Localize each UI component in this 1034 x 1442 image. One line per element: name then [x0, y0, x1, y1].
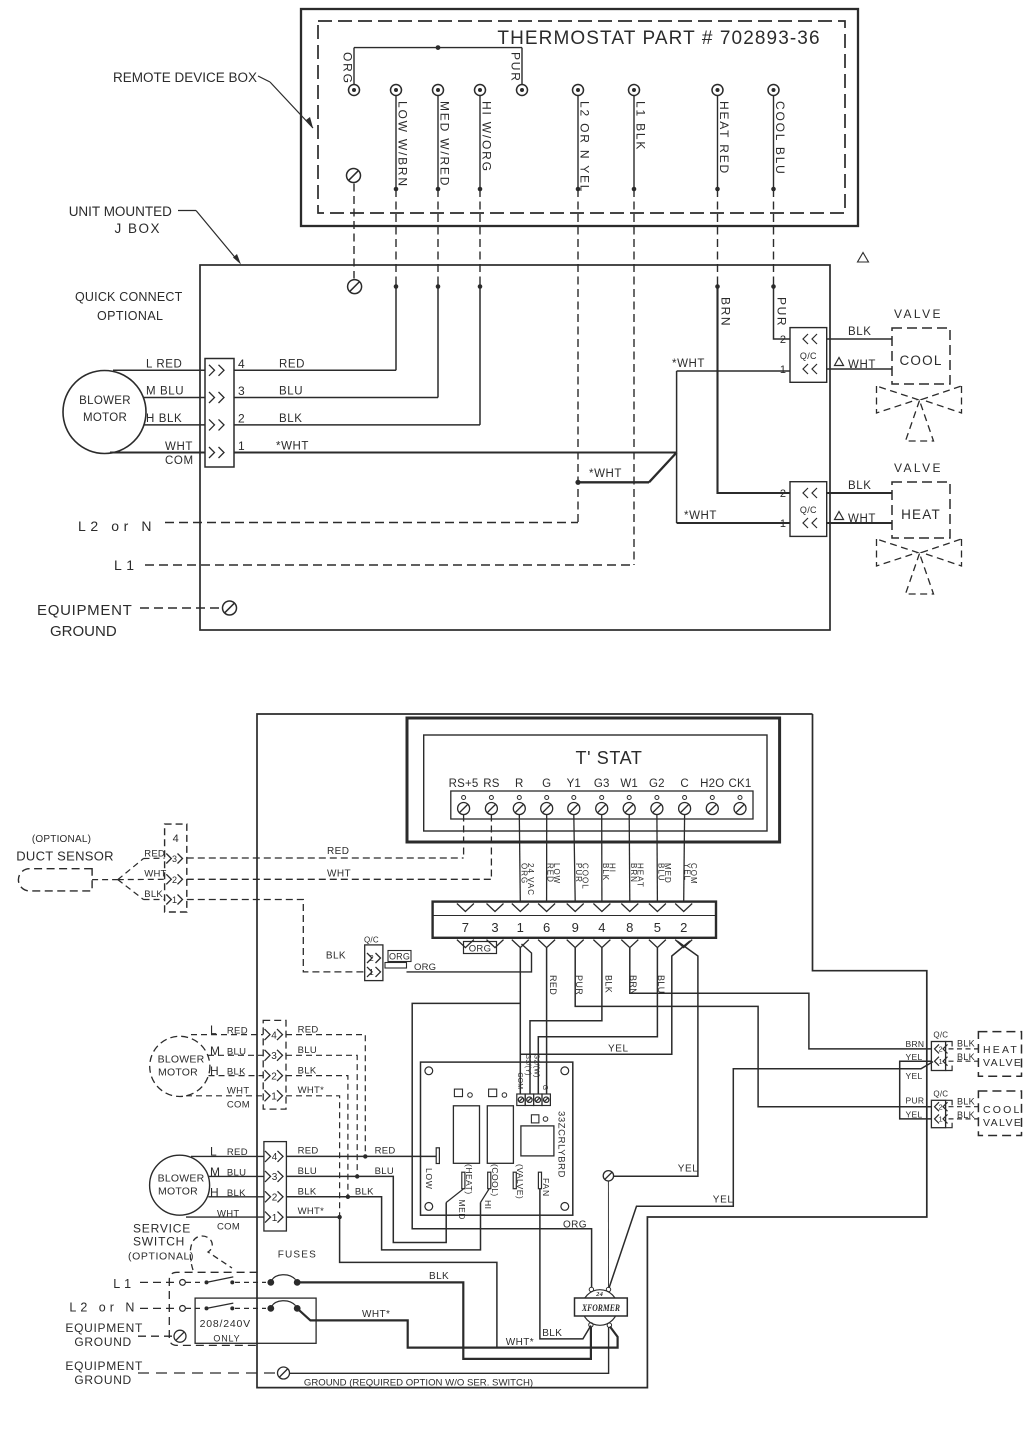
strip pin 5 top chevron — [649, 904, 666, 912]
junction dot LOW W/BRN — [394, 187, 399, 192]
svg-text:4: 4 — [272, 1152, 278, 1163]
label triangle WHT cool — [835, 358, 844, 366]
svg-text:COOL: COOL — [983, 1104, 1022, 1116]
svg-text:RED: RED — [227, 1025, 248, 1036]
svg-text:WHT*: WHT* — [506, 1337, 534, 1348]
svg-text:COM: COM — [516, 1072, 523, 1089]
optional QC pin 4 — [265, 1029, 271, 1040]
svg-text:3: 3 — [238, 384, 245, 398]
main QC pin 1 — [265, 1212, 271, 1223]
svg-text:1: 1 — [780, 518, 786, 530]
svg-text:Q/C: Q/C — [933, 1090, 948, 1099]
svg-text:L2 or N: L2 or N — [78, 518, 156, 534]
T'STAT box outer — [407, 718, 780, 842]
wire YEL heat QC pin1 to transformer — [609, 1062, 933, 1288]
svg-text:HI W/ORG: HI W/ORG — [480, 101, 494, 173]
svg-text:GROUND (REQUIRED OPTION W/O SE: GROUND (REQUIRED OPTION W/O SER. SWITCH) — [304, 1378, 533, 1389]
svg-text:BLU: BLU — [298, 1166, 317, 1177]
svg-text:BLK: BLK — [957, 1110, 975, 1120]
svg-text:BLU: BLU — [375, 1166, 394, 1177]
strip pin 2 top chevron — [675, 904, 692, 912]
strip pin 1 top chevron — [512, 904, 529, 912]
svg-text:Q/C: Q/C — [933, 1031, 948, 1040]
svg-text:EQUIPMENT: EQUIPMENT — [65, 1359, 143, 1373]
dashed wire COOL BLU to J box — [773, 189, 775, 287]
relay board LED square 2 — [489, 1089, 497, 1097]
T'STAT terminal G3 — [600, 796, 604, 800]
quick-connect block QC1 — [205, 359, 234, 468]
strip pin 6 top chevron — [538, 904, 555, 912]
unit mounted J box outline — [200, 265, 830, 630]
thermostat terminal COOL BLU — [768, 85, 779, 96]
junction dot BLU jumper — [355, 1174, 359, 1178]
wire BLK to cool valve — [827, 338, 892, 340]
svg-text:2: 2 — [939, 1103, 943, 1112]
svg-text:BLK: BLK — [848, 326, 872, 338]
L1 switch pole — [180, 1280, 186, 1286]
wire ground to transformer — [290, 1328, 609, 1374]
board terminal G2/(W) — [534, 1094, 542, 1106]
strip pin 6 bottom chevron — [538, 940, 555, 948]
junction dot PUR in J box — [771, 284, 776, 289]
wire YEL A from strip pin2 to COM wire — [520, 941, 690, 1054]
thermostat terminal L1 BLK — [629, 85, 640, 96]
svg-text:RED: RED — [298, 1025, 319, 1036]
svg-text:BLU: BLU — [227, 1046, 246, 1057]
svg-text:G3: G3 — [594, 778, 610, 790]
svg-text:*WHT: *WHT — [684, 510, 717, 522]
wire HI to QC pin2 — [479, 287, 481, 425]
svg-text:WHT*: WHT* — [298, 1085, 325, 1096]
svg-text:ORG: ORG — [519, 863, 528, 884]
strip pin 3 bottom chevron — [487, 940, 504, 948]
svg-text:YEL: YEL — [906, 1052, 923, 1062]
T'STAT terminal C — [683, 796, 687, 800]
wire RED from strip pin6 to board G — [546, 948, 548, 1094]
thermostat ground screw — [347, 169, 361, 183]
svg-text:FUSES: FUSES — [278, 1250, 317, 1261]
svg-text:L1 BLK: L1 BLK — [634, 101, 648, 151]
duct sensor QC pin 1 — [166, 895, 171, 905]
dashed jumper BLU optional — [286, 1055, 357, 1176]
svg-text:BLK: BLK — [601, 863, 610, 881]
board blade (COOL) — [488, 1172, 491, 1189]
relay board 33ZCRLYBRD outline — [421, 1062, 573, 1215]
svg-text:THERMOSTAT PART # 702893-36: THERMOSTAT PART # 702893-36 — [497, 28, 820, 49]
wire ORG branch from COM to transformer — [412, 1003, 591, 1287]
svg-text:BLK: BLK — [957, 1052, 975, 1062]
remote device box (thermostat enclosure) outer — [301, 9, 858, 226]
svg-text:VALVE: VALVE — [894, 461, 943, 475]
connector strip block — [433, 902, 716, 938]
dashed ground wire to J box screw — [353, 184, 355, 279]
main motor leads — [191, 1155, 264, 1157]
heat valve symbol — [877, 539, 918, 566]
wire BRN to heat QC pin2 — [718, 287, 791, 494]
wire C to strip pin 2 — [683, 815, 686, 903]
svg-text:1: 1 — [939, 1115, 943, 1124]
svg-text:RED: RED — [375, 1146, 396, 1157]
dashed wire L2 to fuse — [235, 1307, 266, 1309]
wire from terminal LOW W/BRN down — [395, 96, 397, 190]
svg-text:*WHT: *WHT — [672, 358, 705, 370]
svg-text:VALVE: VALVE — [983, 1057, 1022, 1069]
dashed wire L1 to fuse — [235, 1281, 266, 1283]
transformer pin bottom-left — [589, 1323, 593, 1327]
svg-text:VALVE: VALVE — [894, 307, 943, 321]
svg-text:*WHT: *WHT — [276, 441, 309, 453]
svg-text:WHT: WHT — [144, 869, 166, 880]
T'STAT terminal G2 — [655, 796, 659, 800]
junction dot LOW in J box — [394, 284, 399, 289]
svg-text:L2 OR N YEL: L2 OR N YEL — [578, 101, 592, 193]
wire BRN from strip pin8 to heat QC — [630, 948, 932, 1049]
svg-text:2: 2 — [272, 1193, 278, 1204]
svg-text:G: G — [542, 778, 551, 790]
svg-text:L1: L1 — [114, 557, 139, 573]
wire BLK from fuse F1 to transformer — [297, 1282, 591, 1359]
wire WHT to heat valve — [827, 522, 892, 524]
J box ground screw — [348, 280, 362, 294]
svg-text:RS: RS — [483, 778, 500, 790]
svg-text:HEAT: HEAT — [901, 507, 941, 522]
junction dot BRN in J box — [715, 284, 720, 289]
svg-text:(OPTIONAL): (OPTIONAL) — [128, 1251, 194, 1263]
svg-text:BRN: BRN — [906, 1039, 925, 1049]
svg-text:L1: L1 — [113, 1277, 135, 1291]
svg-text:9: 9 — [572, 920, 579, 935]
cool valve box — [892, 328, 950, 384]
svg-text:C: C — [680, 778, 689, 790]
svg-text:RED: RED — [144, 849, 165, 860]
dashed wire L2 or N — [165, 522, 578, 524]
strip pin 8 top chevron — [621, 904, 638, 912]
leader line to J box — [178, 210, 196, 212]
svg-text:BLK: BLK — [604, 975, 614, 993]
wire from terminal MED W/RED down — [437, 96, 439, 190]
svg-text:1: 1 — [238, 439, 245, 453]
wire G to strip pin 6 — [546, 815, 548, 903]
svg-text:FAN: FAN — [541, 1178, 551, 1197]
svg-text:1: 1 — [172, 895, 177, 905]
svg-text:T' STAT: T' STAT — [576, 748, 643, 768]
svg-text:EQUIPMENT: EQUIPMENT — [37, 602, 132, 619]
svg-text:CK1: CK1 — [729, 778, 752, 790]
dashed wire L1 feed — [140, 1281, 179, 1283]
svg-text:COM: COM — [227, 1100, 250, 1111]
svg-text:SWITCH: SWITCH — [133, 1235, 185, 1249]
boxed label ORG at QC2 — [388, 951, 411, 962]
T'STAT box inner — [424, 735, 767, 831]
svg-text:Y1: Y1 — [567, 778, 581, 790]
svg-text:RED: RED — [298, 1146, 319, 1157]
svg-text:H: H — [210, 1064, 219, 1078]
wire ORG-PUR jumper on thermostat — [354, 47, 522, 49]
svg-text:BLK: BLK — [848, 480, 872, 492]
svg-text:MED: MED — [457, 1200, 467, 1220]
svg-text:XFORMER: XFORMER — [581, 1304, 620, 1314]
wire YEL heat QC pin1 to cool QC pin1 — [900, 1061, 932, 1119]
strip pin 4 top chevron — [593, 904, 610, 912]
thermostat terminal L2 OR N YEL — [573, 85, 584, 96]
svg-text:RED: RED — [227, 1147, 248, 1158]
wire G3 to strip pin 4 — [601, 815, 603, 903]
svg-text:BLK: BLK — [542, 1328, 562, 1339]
svg-text:YEL: YEL — [678, 1164, 699, 1175]
wire YEL B from strip pin2 to ground screw — [614, 941, 698, 1176]
dashed wire HI W/ORG to J box — [479, 189, 481, 287]
relay board LED square 3 — [531, 1115, 539, 1123]
dashed wire RED from RS+5 — [463, 815, 465, 859]
junction dot COOL BLU — [771, 187, 776, 192]
svg-text:5: 5 — [654, 920, 661, 935]
svg-text:BLK: BLK — [298, 1066, 317, 1077]
dashed wire LOW W/BRN to J box — [395, 189, 397, 287]
T'STAT terminal W1 — [627, 796, 631, 800]
svg-text:LOW: LOW — [424, 1168, 434, 1190]
svg-text:M: M — [210, 1044, 220, 1058]
svg-text:YEL: YEL — [906, 1071, 923, 1081]
duct sensor probe — [18, 869, 92, 891]
svg-text:BLK: BLK — [355, 1186, 374, 1197]
svg-text:DUCT SENSOR: DUCT SENSOR — [16, 849, 114, 864]
svg-text:BLK: BLK — [326, 951, 346, 962]
svg-text:M: M — [210, 1165, 220, 1179]
svg-text:BLU: BLU — [227, 1167, 246, 1178]
dashed wire L1 — [145, 564, 634, 566]
svg-text:R: R — [515, 778, 524, 790]
svg-text:(COOL): (COOL) — [490, 1164, 500, 1197]
strip pin 8 bottom chevron — [621, 940, 638, 948]
QC1 pin 4 chevrons — [209, 365, 215, 376]
junction dot HI in J box — [478, 284, 483, 289]
service switch handle — [190, 1236, 232, 1270]
ground wire to transformer — [607, 1181, 609, 1287]
svg-text:BLK: BLK — [957, 1096, 975, 1106]
junction dot L1 BLK — [632, 187, 637, 192]
svg-text:BLK: BLK — [957, 1039, 975, 1049]
relay component K2 — [487, 1106, 513, 1164]
24V ground screw — [603, 1171, 613, 1181]
svg-text:WHT*: WHT* — [298, 1206, 325, 1217]
svg-text:GROUND: GROUND — [74, 1373, 132, 1387]
svg-text:L2 or N: L2 or N — [69, 1301, 138, 1315]
strip pin 5 bottom chevron — [649, 940, 666, 948]
relay board mounting hole — [561, 1203, 569, 1211]
duct sensor fan-out BLK — [118, 880, 144, 900]
blower motor circle — [63, 371, 146, 454]
wire Y1 to strip pin 9 — [574, 815, 575, 903]
svg-text:HEAT RED: HEAT RED — [717, 101, 731, 175]
ORG jumper box pins 7-3 — [464, 942, 497, 954]
unit cabinet outline (bottom diagram) — [257, 714, 927, 1388]
wire *WHT tap to L2 — [578, 481, 649, 483]
svg-text:1: 1 — [369, 968, 374, 977]
svg-text:1: 1 — [272, 1213, 278, 1224]
svg-text:WHT: WHT — [848, 359, 876, 371]
dashed wire L2 feed — [140, 1307, 179, 1309]
heat valve box (bottom) — [978, 1032, 1021, 1077]
QC2 pin 1 — [367, 967, 372, 977]
optional QC pin 2 — [265, 1070, 271, 1081]
relay board mounting hole — [425, 1203, 433, 1211]
main blower motor circle — [150, 1155, 210, 1215]
dashed jumper BLK optional — [286, 1076, 348, 1197]
transformer circle — [582, 1290, 618, 1326]
svg-text:EQUIPMENT: EQUIPMENT — [65, 1321, 143, 1335]
svg-text:MED W/RED: MED W/RED — [438, 101, 452, 187]
svg-text:H: H — [210, 1185, 219, 1199]
svg-text:BLK: BLK — [144, 889, 163, 900]
transformer pin bottom-right — [607, 1323, 611, 1327]
QC1 pin 3 chevrons — [209, 392, 215, 403]
cool valve BLK stubs — [949, 1106, 979, 1108]
svg-text:ORG: ORG — [341, 52, 355, 85]
dashed wire L2 OR N YEL down — [577, 189, 579, 523]
svg-text:HEAT: HEAT — [983, 1044, 1019, 1056]
thermostat terminal LOW W/BRN — [391, 85, 402, 96]
thermostat terminal HI W/ORG — [475, 85, 486, 96]
wire BLU from strip pin5 to board G2 — [538, 948, 657, 1094]
svg-text:1: 1 — [517, 920, 524, 935]
svg-text:BRN: BRN — [719, 297, 733, 327]
duct sensor QC pin 2 — [166, 874, 171, 884]
optional motor leads — [191, 1034, 263, 1036]
switch arm COOL-HI — [481, 1189, 490, 1203]
svg-text:WHT: WHT — [165, 441, 193, 453]
svg-text:BRN: BRN — [629, 863, 638, 883]
svg-text:QUICK CONNECT: QUICK CONNECT — [75, 290, 183, 304]
duct sensor fan-out WHT — [118, 878, 165, 880]
label triangle WHT heat — [835, 512, 844, 520]
svg-text:LOW W/BRN: LOW W/BRN — [396, 101, 410, 188]
svg-text:2: 2 — [680, 920, 687, 935]
svg-text:1: 1 — [271, 1092, 277, 1103]
relay component K1 — [453, 1106, 479, 1164]
svg-text:WHT: WHT — [227, 1086, 250, 1097]
svg-text:ORG: ORG — [389, 952, 410, 962]
strip pin 4 bottom chevron — [593, 940, 610, 948]
svg-text:GROUND: GROUND — [74, 1335, 132, 1349]
dashed jumper WHT* optional — [286, 1096, 340, 1217]
main blower motor QC — [264, 1142, 287, 1231]
T'STAT terminal R — [517, 796, 521, 800]
board terminal COM — [517, 1094, 525, 1106]
svg-text:SERVICE: SERVICE — [133, 1222, 191, 1236]
svg-text:REMOTE DEVICE BOX: REMOTE DEVICE BOX — [113, 70, 257, 85]
junction dot HI W/ORG — [478, 187, 483, 192]
optional blower motor circle — [150, 1036, 210, 1096]
dashed wire to cabinet ground — [138, 1372, 277, 1374]
T'STAT terminal CK1 — [738, 796, 742, 800]
svg-text:YEL: YEL — [906, 1110, 923, 1120]
svg-text:W1: W1 — [620, 778, 638, 790]
strip pin 7 bottom chevron — [457, 940, 474, 948]
svg-text:2: 2 — [238, 411, 245, 425]
svg-text:Q/C: Q/C — [800, 351, 817, 361]
svg-text:RED: RED — [546, 863, 555, 883]
T'STAT terminal RS — [489, 796, 493, 800]
svg-text:4: 4 — [271, 1030, 277, 1041]
svg-text:PUR: PUR — [509, 52, 523, 83]
T'STAT terminal Y1 — [572, 796, 576, 800]
svg-text:3: 3 — [271, 1051, 277, 1062]
cool valve box (bottom) — [978, 1091, 1021, 1136]
svg-text:VALVE: VALVE — [983, 1117, 1022, 1129]
heat valve BLK stubs — [949, 1048, 979, 1050]
svg-text:2: 2 — [369, 954, 374, 963]
junction dot RED jumper — [363, 1154, 367, 1158]
junction dot HEAT RED — [715, 187, 720, 192]
svg-text:BLK: BLK — [227, 1067, 246, 1078]
board blade (HEAT) — [462, 1172, 465, 1189]
wire from terminal COOL BLU down — [773, 96, 775, 190]
svg-text:HI: HI — [483, 1200, 493, 1210]
wire PUR from strip pin9 to cool QC — [575, 948, 931, 1107]
208/240V ONLY box — [195, 1298, 316, 1343]
svg-text:24: 24 — [595, 1291, 603, 1298]
svg-text:PUR: PUR — [574, 863, 583, 883]
svg-text:PUR: PUR — [906, 1096, 925, 1106]
svg-text:GROUND: GROUND — [50, 623, 117, 640]
thermostat terminal ORG — [349, 85, 360, 96]
optional blower motor QC (dashed) — [263, 1020, 286, 1109]
svg-text:2: 2 — [172, 875, 177, 885]
svg-text:4: 4 — [173, 833, 179, 845]
relay board LED square 1 — [454, 1089, 462, 1097]
svg-text:1: 1 — [939, 1057, 943, 1066]
svg-text:4: 4 — [598, 920, 605, 935]
triangle marker — [858, 253, 869, 263]
svg-text:ORG: ORG — [563, 1220, 587, 1231]
remote device box inner dashed outline — [318, 21, 845, 213]
svg-text:6: 6 — [543, 920, 550, 935]
dashed wire BLK from duct sensor — [187, 900, 365, 972]
svg-text:J BOX: J BOX — [115, 221, 162, 236]
board blade (VALVE) — [513, 1172, 516, 1189]
board blade LOW — [436, 1148, 439, 1164]
svg-text:8: 8 — [626, 920, 633, 935]
strip pin 1 bottom chevron — [512, 940, 529, 948]
svg-text:G2: G2 — [649, 778, 665, 790]
wire COM from strip pin1 to board — [519, 948, 521, 1094]
junction dot MED in J box — [436, 284, 441, 289]
cabinet ground screw — [278, 1367, 290, 1379]
transformer pin top-left — [589, 1287, 593, 1291]
svg-text:RED: RED — [327, 846, 349, 857]
wire *WHT riser — [676, 371, 678, 523]
duct sensor QC pin 3 — [166, 854, 171, 864]
dashed wire HEAT RED to J box — [717, 189, 719, 287]
heat valve QC connector — [790, 482, 827, 537]
wire G2 to strip pin 5 — [656, 815, 659, 903]
optional QC pin 1 — [265, 1090, 271, 1101]
svg-text:BLU: BLU — [656, 863, 665, 882]
connector strip midline — [433, 915, 716, 917]
wire ORG from QC2 to strip pin1 — [407, 944, 532, 972]
svg-text:BLU: BLU — [298, 1045, 317, 1056]
svg-text:RED: RED — [548, 975, 558, 995]
svg-text:COM: COM — [217, 1222, 240, 1233]
wire motor L to QC — [113, 369, 205, 371]
svg-text:1: 1 — [780, 364, 786, 376]
dashed wire WHT from RS — [490, 815, 492, 880]
relay board mounting hole — [425, 1067, 433, 1075]
svg-text:BLK: BLK — [279, 413, 303, 425]
wire motor WHT COM to QC — [110, 451, 205, 453]
junction dot WHT* jumper — [337, 1215, 341, 1219]
switch ground screw — [174, 1330, 186, 1342]
